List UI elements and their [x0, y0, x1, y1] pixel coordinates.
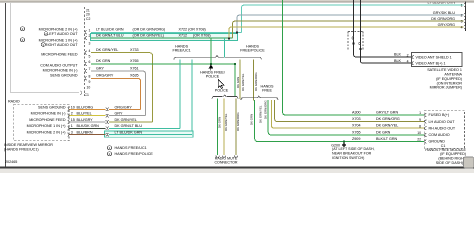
connector INSIDE REARVIEW MIRROR dashed box: [14, 104, 69, 141]
svg-text:MICROPHONE 2 IN (+): MICROPHONE 2 IN (+): [39, 27, 78, 31]
svg-text:ORG/GRY: ORG/GRY: [96, 74, 114, 78]
svg-text:MICROPHONE IN (-): MICROPHONE IN (-): [31, 112, 66, 116]
wire teal drop from X712 row to brace: [224, 38, 226, 57]
svg-text:LEFT AUDIO OUT: LEFT AUDIO OUT: [47, 32, 78, 36]
connector RADIO pin hooks: [85, 31, 87, 80]
label INSIDE REARVIEW MIRROR: [4, 143, 53, 152]
junction dots BLK wires: [353, 43, 355, 45]
rotated labels HANDS FREE group wires: [250, 100, 268, 125]
box SATELLITE VIDEO ANTENNA: [412, 53, 463, 67]
annotation arrow to DK GRN wire: [209, 65, 213, 71]
svg-text:X704: X704: [352, 124, 361, 128]
svg-text:FREE/UC1: FREE/UC1: [172, 49, 190, 53]
wire DK GRN/YEL drop from brace: [239, 59, 241, 99]
svg-text:Z909: Z909: [352, 137, 360, 141]
svg-text:(IF EQUIPPED): (IF EQUIPPED): [440, 152, 466, 156]
svg-text:DK GRN/ORG: DK GRN/ORG: [263, 100, 267, 119]
svg-text:DK GRN/ORG: DK GRN/ORG: [236, 112, 240, 131]
wire GRY (row 2 after connector): [109, 115, 145, 117]
svg-text:X733: X733: [130, 48, 139, 52]
svg-text:IGNITION SWITCH): IGNITION SWITCH): [332, 156, 364, 160]
module pin names: [429, 113, 456, 144]
svg-text:X761: X761: [130, 66, 139, 70]
svg-text:DK GRN: DK GRN: [236, 77, 240, 88]
wire DK GRN to COM AUDIO row: [268, 100, 424, 135]
svg-text:A300: A300: [352, 110, 361, 114]
mirror second wire labels: [115, 105, 143, 134]
pins 2 and 4: [407, 53, 409, 63]
svg-text:(OR X708): (OR X708): [193, 34, 211, 38]
svg-text:SIDE OF DASH): SIDE OF DASH): [436, 161, 463, 165]
svg-text:DK GRN/ORG: DK GRN/ORG: [431, 17, 455, 21]
wire teal riser to mirror row 4: [179, 59, 181, 128]
svg-text:(HANDS FREE/UC1): (HANDS FREE/UC1): [4, 147, 39, 151]
svg-text:(IF EQUIPPED): (IF EQUIPPED): [436, 77, 462, 81]
connector RADIO C2/C1 dashed edge: [84, 7, 86, 96]
svg-text:X765: X765: [352, 130, 361, 134]
svg-text:BLU/ORG: BLU/ORG: [77, 105, 94, 109]
wire BLK/LT GRN ground branch to Z909 row: [255, 100, 424, 142]
svg-text:BLU/BRN: BLU/BRN: [77, 131, 93, 135]
highlight band on wire X712 row: [91, 34, 238, 41]
svg-text:DK GRN/YEL: DK GRN/YEL: [96, 48, 118, 52]
connector C1 hands free module dashed box: [424, 110, 464, 148]
circled marker 2 (left of MICROPHONE 1 IN): [20, 38, 24, 42]
wire bend w4 yellow-olive up from row2: [229, 27, 464, 38]
wire teal riser to mirror row 5: [191, 59, 193, 134]
svg-text:MICROPHONE FEED: MICROPHONE FEED: [29, 118, 66, 122]
wire ORG/GRY X635 (radio pin 8) with riser to mirror row 1: [91, 74, 141, 110]
svg-text:COM AUDIO OUTPUT: COM AUDIO OUTPUT: [40, 63, 78, 67]
svg-text:7: 7: [89, 67, 91, 71]
radio component case outline: [11, 3, 82, 95]
svg-text:FREE/POLICE: FREE/POLICE: [240, 49, 265, 53]
bottom-right scrollbar blob: [464, 157, 474, 168]
circled marker 2 inline before LEFT AUDIO OUT: [44, 32, 48, 36]
svg-text:HANDS FREE/UC1: HANDS FREE/UC1: [115, 146, 147, 150]
svg-text:DK GRN/YEL: DK GRN/YEL: [241, 73, 245, 91]
svg-text:(OR DK GRN/ORG): (OR DK GRN/ORG): [133, 28, 166, 32]
svg-text:1: 1: [419, 111, 421, 115]
rotated wire labels between braces: [236, 72, 258, 91]
labels BLK: [394, 53, 402, 63]
svg-text:ORG/GRY: ORG/GRY: [115, 105, 133, 109]
svg-text:DK GRN/ORG: DK GRN/ORG: [254, 72, 258, 91]
connector pin hooks: [352, 37, 360, 46]
svg-text:4: 4: [89, 49, 91, 53]
svg-text:DK GRN/YEL: DK GRN/YEL: [224, 113, 228, 131]
svg-text:X635: X635: [130, 74, 139, 78]
svg-text:(AT LEFT SIDE OF DASH,: (AT LEFT SIDE OF DASH,: [332, 147, 375, 151]
svg-text:DK GRN/LT BLU: DK GRN/LT BLU: [96, 34, 124, 38]
svg-text:2: 2: [71, 112, 73, 116]
svg-text:GRY/LT GRN: GRY/LT GRN: [376, 110, 398, 114]
svg-text:DK GRN/YEL: DK GRN/YEL: [115, 118, 137, 122]
junction dot row1/w2: [236, 31, 238, 33]
svg-text:9: 9: [89, 80, 91, 84]
wire DK GRN/ORG drop from brace: [252, 59, 254, 100]
radio left pin-name text block: [39, 27, 79, 77]
svg-text:SENS GROUND: SENS GROUND: [50, 73, 78, 77]
label HANDS FREE/UC1 group: [172, 45, 190, 53]
wire BLU/YEL (row 2): [70, 115, 106, 117]
svg-text:SATELLITE VIDEO 1: SATELLITE VIDEO 1: [427, 68, 462, 72]
svg-text:COM AUDIO: COM AUDIO: [429, 133, 450, 137]
connector satellite antenna dashed box: [348, 32, 363, 51]
wire GRY X761 (radio pin 7) with riser to mirror row 2: [91, 66, 146, 115]
wire GRY/LT GRN vertical from top to FUSED B(+) row: [283, 0, 424, 115]
wire DK GRN/YEL X733 (radio pin 4) with riser to mirror row 3: [91, 48, 153, 122]
svg-text:(ON INTERIOR: (ON INTERIOR: [437, 81, 463, 85]
svg-text:RADIO: RADIO: [8, 99, 20, 103]
svg-text:2: 2: [407, 53, 409, 57]
svg-text:22: 22: [417, 138, 421, 142]
module wire code labels: [352, 110, 400, 140]
wire DK GRN/YEL (row 3 after connector): [109, 121, 152, 123]
svg-text:FUSED B(+): FUSED B(+): [429, 113, 450, 117]
svg-text:DK GRN: DK GRN: [218, 117, 222, 128]
wire DK GRN to radio mute connector: [217, 99, 219, 155]
wire BLU/ORG (mirror row 1): [70, 108, 106, 110]
bottom gray area below border: [0, 169, 474, 173]
svg-text:NEAR BREAKOUT FOR: NEAR BREAKOUT FOR: [332, 152, 372, 156]
svg-text:X765: X765: [130, 59, 139, 63]
svg-text:RH AUDIO OUT: RH AUDIO OUT: [429, 126, 456, 130]
svg-text:GRY/ORG: GRY/ORG: [438, 23, 455, 27]
svg-text:10: 10: [87, 86, 91, 90]
svg-text:HANDS FREE/POLICE: HANDS FREE/POLICE: [115, 152, 154, 156]
wire DK GRN/LT BLU X712 (radio pin 2 row, highlighted): [91, 34, 233, 39]
svg-text:3: 3: [461, 19, 463, 23]
svg-text:X722 (OR X708): X722 (OR X708): [179, 28, 206, 32]
svg-text:VIDEO ANT SHIELD 1: VIDEO ANT SHIELD 1: [416, 55, 452, 59]
wire DK GRN/YEL to radio mute connector: [223, 99, 225, 155]
svg-text:MICROPHONE FEED: MICROPHONE FEED: [41, 52, 78, 56]
svg-text:10: 10: [417, 131, 421, 135]
junction dot: [210, 63, 212, 65]
svg-text:BLU/GRY: BLU/GRY: [77, 118, 94, 122]
svg-text:DK GRN/LT BLU: DK GRN/LT BLU: [115, 124, 143, 128]
connector RADIO MUTE pin hooks: [216, 156, 238, 158]
svg-text:DK GRN/YEL: DK GRN/YEL: [259, 105, 263, 123]
wire DK GRN drop from green wire end to POLICE brace: [234, 64, 236, 96]
ground G200 symbol on Z909 wire: [331, 141, 346, 148]
wire BLK 2 from top to VIDEO ANT B(+): [360, 0, 411, 63]
svg-text:MICROPHONE 2 IN (+): MICROPHONE 2 IN (+): [27, 131, 66, 135]
mirror pin names: [27, 105, 66, 134]
wire LT BLU/DK GRN (row 5 after connector): [109, 134, 192, 136]
connector RADIO pin numbers: [85, 9, 91, 97]
svg-text:DK GRN/ORG: DK GRN/ORG: [376, 117, 400, 121]
svg-text:ANTENNA: ANTENNA: [444, 73, 462, 77]
wire DK GRN/YEL to RH AUDIO row: [271, 100, 424, 128]
wire BLU/BRN (row 5): [70, 134, 106, 136]
svg-text:MICROPHONE IN (-): MICROPHONE IN (-): [43, 68, 78, 72]
svg-text:DK GRN/YEL: DK GRN/YEL: [376, 124, 398, 128]
svg-text:BLU/YEL: BLU/YEL: [77, 112, 92, 116]
diagram bottom border bar: [0, 166, 474, 168]
wire LT BLU/DK GRN X722 (radio pin 1 row): [91, 28, 242, 33]
mirror pin numbers and first wire labels: [71, 105, 99, 134]
rotated labels POLICE group wires: [218, 112, 240, 131]
wire DK GRN/ORG to radio mute connector: [235, 99, 237, 155]
wire bend w2 gray-blue up from row1: [237, 15, 464, 32]
svg-text:6: 6: [89, 60, 91, 64]
svg-text:15: 15: [71, 118, 75, 122]
label HANDS FREE/POLICE (annotation): [200, 71, 226, 79]
svg-text:DK GRN: DK GRN: [250, 114, 254, 125]
wire BLK 1 from top to VIDEO ANT SHIELD: [354, 0, 412, 57]
svg-text:202465: 202465: [5, 160, 17, 164]
circled marker 2 inline before RIGHT AUDIO OUT: [41, 43, 45, 47]
brace POLICE: [212, 94, 238, 98]
svg-text:FREE: FREE: [262, 89, 272, 93]
label HANDS FREE (lower group): [261, 85, 274, 93]
wire DK GRN/ORG to LH AUDIO row: [275, 100, 424, 122]
svg-text:1: 1: [461, 3, 463, 7]
svg-text:4: 4: [461, 25, 463, 29]
wire DK GRN/LT BLU (row 4 after connector): [109, 127, 180, 129]
wire bend w1 teal up from row1: [242, 5, 464, 32]
svg-text:MICROPHONE 1 IN (+): MICROPHONE 1 IN (+): [27, 124, 66, 128]
wire bend w3 olive up from row2: [233, 21, 464, 38]
legend circled 2 HANDS FREE/POLICE: [107, 152, 153, 156]
svg-text:INSIDE REARVIEW MIRROR: INSIDE REARVIEW MIRROR: [4, 143, 53, 147]
svg-text:9: 9: [419, 118, 421, 122]
label HANDS FREE/POLICE upper group: [240, 45, 265, 53]
top wire labels at right: [431, 11, 455, 27]
svg-text:LT BLU/DK GRN: LT BLU/DK GRN: [96, 28, 124, 32]
svg-text:BLK: BLK: [394, 53, 402, 57]
legend circled 1 HANDS FREE/UC1: [107, 146, 146, 150]
right edge mirror connector: [461, 2, 466, 32]
svg-text:GRY/DK BLU: GRY/DK BLU: [433, 11, 456, 15]
svg-text:BLK/DK GRN: BLK/DK GRN: [77, 124, 100, 128]
svg-text:X703: X703: [352, 117, 361, 121]
brace over UC1/POLICE alternative wires: [174, 55, 261, 60]
label HANDS FREE MODULE: [425, 148, 466, 165]
junction dot row2/w4: [228, 37, 230, 39]
label G200 location note: [332, 147, 375, 160]
svg-text:RIGHT AUDIO OUT: RIGHT AUDIO OUT: [45, 43, 78, 47]
svg-text:MIRROR JUMPER): MIRROR JUMPER): [430, 86, 462, 90]
svg-text:C1: C1: [85, 93, 89, 97]
svg-text:LH AUDIO OUT: LH AUDIO OUT: [429, 120, 456, 124]
junction dot DK GRN branch: [234, 63, 236, 65]
module pin numbers: [417, 111, 421, 142]
svg-text:DK GRN: DK GRN: [376, 130, 391, 134]
window chrome top strip: [0, 0, 474, 2]
brace HANDS FREE: [241, 96, 278, 100]
svg-text:HANDS FREE MODULE: HANDS FREE MODULE: [425, 148, 466, 152]
diagram left border line: [5, 3, 7, 168]
svg-text:2: 2: [461, 13, 463, 17]
mirror pin hooks: [67, 108, 69, 137]
svg-text:(BEHIND RIGHT: (BEHIND RIGHT: [438, 157, 466, 161]
svg-text:5: 5: [89, 55, 91, 59]
svg-text:DK GRN: DK GRN: [96, 59, 111, 63]
mouse cursor: [218, 79, 224, 88]
svg-text:C2: C2: [86, 17, 90, 21]
circled marker 2 (left of MICROPHONE 2 IN): [20, 27, 24, 31]
label SATELLITE VIDEO 1 ANTENNA: [427, 68, 462, 90]
module pin hooks: [425, 113, 427, 143]
svg-text:MICROPHONE 1 IN (+): MICROPHONE 1 IN (+): [39, 38, 78, 42]
svg-text:LT BLU/DK GRN: LT BLU/DK GRN: [115, 131, 143, 135]
label RADIO MUTE CONNECTOR: [214, 157, 237, 165]
svg-text:1: 1: [89, 29, 91, 33]
wire DK GRN X765 (radio pin 6, horizontal): [91, 59, 235, 64]
svg-text:(OR DK GRN/YEL): (OR DK GRN/YEL): [133, 34, 164, 38]
svg-text:BLK: BLK: [394, 59, 402, 63]
wire BLU/GRY (row 3): [70, 121, 106, 123]
highlight band on LT BLU/DK GRN mirror row: [104, 131, 193, 137]
svg-text:BLK/LT GRN: BLK/LT GRN: [376, 137, 398, 141]
svg-text:X712: X712: [179, 34, 188, 38]
svg-text:VIDEO ANT B(+) 1: VIDEO ANT B(+) 1: [416, 61, 446, 65]
wire green drop through brace to DK GRN junction: [210, 38, 212, 64]
svg-text:POLICE: POLICE: [206, 75, 220, 79]
svg-text:SENS GROUND: SENS GROUND: [38, 105, 66, 109]
svg-text:POLICE: POLICE: [215, 89, 229, 93]
svg-text:GRY: GRY: [96, 66, 104, 70]
svg-text:4: 4: [407, 59, 409, 63]
inline connector symbols: [106, 108, 109, 136]
svg-text:8: 8: [89, 75, 91, 79]
svg-text:8: 8: [419, 124, 421, 128]
svg-text:3: 3: [71, 131, 73, 135]
svg-text:GRY: GRY: [115, 112, 123, 116]
wire BLK/DK GRN (row 4): [70, 127, 106, 129]
svg-text:CONNECTOR: CONNECTOR: [214, 160, 237, 164]
wire ORG/GRY (row 1 after connector): [109, 108, 140, 110]
svg-text:3: 3: [89, 42, 91, 46]
svg-text:10: 10: [71, 105, 75, 109]
svg-text:1: 1: [71, 124, 73, 128]
